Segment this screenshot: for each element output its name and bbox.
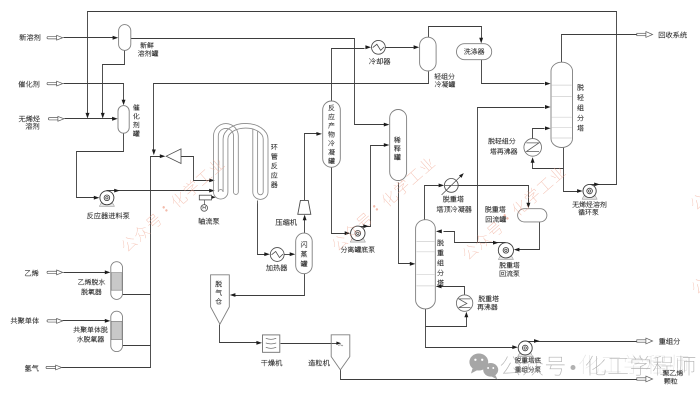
label heavies reboiler	[479, 295, 499, 301]
label olefin-free solvent	[19, 116, 40, 122]
label reactor feed pump	[87, 212, 129, 219]
wire fresh solvent tank to dilution tank	[131, 39, 386, 125]
wire heavies column overhead vapor to de-lighting column	[478, 108, 545, 243]
pump P3 separator bottom pump 分离罐底泵	[350, 239, 365, 243]
wire compressor to product condensate tank	[305, 134, 318, 201]
label ethylene	[25, 270, 38, 276]
machine M2 granulator 造粒机	[331, 335, 350, 370]
wire olefin-free solvent feed	[65, 118, 114, 120]
label dilution tank	[394, 137, 400, 161]
wire flash tank bottoms to degassing bin	[235, 274, 305, 296]
label solvent circulation pump	[573, 201, 607, 207]
arrow into cooler	[365, 45, 371, 49]
label flash tank	[301, 241, 307, 266]
arrow into loop reactor upper inlet	[209, 179, 215, 183]
label de-lighting column	[577, 84, 584, 131]
reboiler E3 de-lighting column reboiler 脱轻组分塔再沸器	[524, 139, 542, 157]
arrow into ejector	[160, 154, 166, 158]
arrow reboiler return into heavies column (over shape)	[436, 284, 442, 288]
arrow into ethylene dehydrator	[105, 270, 111, 274]
wire cooler to light component condensate drum	[386, 47, 414, 49]
arrow on separator pump discharge	[363, 224, 369, 228]
wire catalyst feed	[64, 84, 124, 102]
wire de-lighting reboiler return	[533, 129, 545, 139]
bin B1 degassing bin 脱气仓	[211, 275, 230, 324]
arrow into de-lighting column upper feed	[545, 82, 551, 86]
tank T6 light component condensate drum 轻组分冷凝罐	[420, 37, 437, 71]
wire flash tank overhead to compressor	[304, 220, 306, 234]
feed arrow olefin-free solvent 无烯烃溶剂	[48, 118, 58, 120]
arrow into dilution tank	[384, 123, 390, 127]
tank T4 reaction product condensate tank 反应产物冷凝罐	[323, 101, 341, 167]
ejector J1 reactor feed ejector	[166, 149, 181, 164]
wire catalyst tank to reactor feed pump	[77, 134, 124, 198]
label heater	[266, 265, 287, 271]
wire ethylene dehydrator outlet	[122, 294, 151, 296]
arrow into bottoms pump	[512, 345, 518, 349]
label polyethylene pellets	[663, 370, 683, 376]
arrow feed into heavies column	[410, 262, 416, 266]
arrow at reflux pump suction	[493, 241, 499, 245]
wire dryer to granulator	[281, 343, 337, 345]
label fresh solvent tank	[140, 42, 153, 48]
condenser E5 heavies column overhead condenser 脱重塔塔顶冷凝器	[444, 179, 458, 193]
label light condensate drum	[435, 73, 455, 79]
wire dryer outlet tip inside granulator	[332, 343, 337, 345]
arrow into heavies reboiler	[464, 312, 468, 318]
arrow into degassing bin	[230, 293, 236, 297]
product arrow to recovery system 回收系统	[637, 33, 647, 35]
arrow into product condensate tank	[316, 132, 322, 136]
arrow into loop reactor lower inlet	[209, 189, 215, 193]
label dryer	[261, 360, 282, 366]
wire loop reactor product to heater	[258, 204, 266, 255]
vessel V3 comonomer dehydrator-deoxygenator 共聚单体脱水脱氧器	[111, 311, 123, 351]
label hydrogen	[25, 365, 38, 371]
wire comonomer dehydrator outlet	[122, 345, 151, 347]
arrow into dilution tank lower inlet	[384, 143, 390, 147]
wire dilution tank bottoms to heavies column	[399, 183, 412, 264]
column C2 heavies removal column 脱重组分塔	[416, 220, 436, 309]
feed arrow comonomer 共聚单体	[47, 320, 57, 322]
pump P2 axial flow pump 轴流泵	[199, 195, 211, 200]
arrow into scrubber	[479, 38, 483, 44]
wire light drum overhead to scrubber	[429, 27, 482, 40]
watermark pink tile 2 公众号：化学工业	[329, 155, 436, 252]
reboiler E4 heavies column reboiler 脱重塔再沸器	[456, 295, 472, 311]
wire heavies column overhead to condenser	[425, 186, 439, 220]
label degassing bin	[215, 281, 221, 304]
arrow reflux into heavies column (over shape)	[436, 230, 442, 234]
pump P6 heavies bottoms pump 脱重塔塔底重组分泵	[518, 353, 533, 357]
arrow reboiler return into column	[545, 126, 551, 130]
wire loop reactor outlet stub	[257, 201, 259, 204]
label recovery system	[659, 32, 687, 38]
label ethylene dehydrator	[78, 279, 105, 285]
wire heater to flash tank	[285, 254, 292, 256]
label catalyst tank	[133, 104, 139, 136]
label overhead condenser	[443, 196, 464, 202]
pump P4 olefin-free solvent circulation pump 无烯烃溶剂循环泵	[582, 196, 597, 200]
arrow into dryer	[256, 341, 262, 345]
arrow into overhead condenser	[439, 184, 445, 188]
tank T3 flash tank 闪蒸罐	[296, 233, 313, 274]
arrow on pump discharge	[114, 189, 120, 193]
label separator bottom pump	[341, 246, 375, 252]
wire light-component condensate recycle to ejector	[154, 72, 429, 152]
label reflux pump	[499, 262, 519, 268]
wire new-solvent feed	[64, 37, 114, 39]
wire comonomer feed	[63, 320, 107, 322]
wire fresh solvent tank bottom to solvent feed line	[103, 51, 125, 115]
wire reflux pump to column reflux return	[444, 232, 506, 243]
pump P5 heavies column reflux pump 脱重塔回流泵	[498, 256, 513, 260]
arrow on circulation pump discharge	[594, 183, 600, 187]
label granulator	[309, 360, 330, 366]
wire reflux drum to reflux pump	[519, 222, 540, 250]
compressor K1 压缩机	[298, 200, 311, 214]
arrow into flash tank	[290, 252, 296, 256]
wire condenser outlet to reflux drum	[459, 186, 529, 205]
label scrubber	[464, 48, 484, 54]
tank T1 fresh solvent tank 新鲜溶剂罐	[119, 25, 131, 51]
feed arrow new solvent 新溶剂	[47, 37, 57, 39]
arrow reflux into heavies column	[436, 230, 442, 234]
wire granulator to polyethylene pellets outlet	[341, 369, 637, 380]
arrow into de-lighting column lower feed	[545, 105, 551, 109]
feed arrow catalyst 催化剂	[47, 82, 57, 84]
cooler E2 冷却器	[372, 40, 386, 54]
label heavies product	[659, 338, 680, 344]
wire condensate tank overhead to cooler	[332, 49, 365, 102]
tank T5 dilution tank 稀释罐	[390, 110, 407, 181]
product arrow heavies 重组分	[637, 340, 647, 342]
wire condensate tank bottoms to separator pump	[332, 168, 346, 234]
tank T7 heavies column reflux drum 脱重塔回流罐	[518, 209, 547, 222]
feed arrow hydrogen 氢气	[46, 366, 56, 368]
label de-lighting reboiler	[488, 138, 515, 144]
arrow reboiler return into heavies column	[436, 284, 442, 288]
arrow into light component drum	[414, 45, 420, 49]
arrow on bottoms pump discharge	[534, 339, 540, 343]
arrow into fresh solvent tank	[113, 36, 119, 40]
label reflux drum	[485, 206, 506, 212]
label product condensate tank	[328, 105, 334, 164]
junction arrow solvent tank drop	[101, 113, 105, 119]
vessel V1 scrubber 洗涤器	[457, 44, 492, 60]
wire solvent-recycle top bus (pump outlet to feed header)	[88, 12, 617, 185]
wire solvent circulation pump outlet	[590, 184, 617, 186]
watermark pink tile 4 公众号：化学工业 (edge sliver)	[688, 114, 700, 211]
wire thermosiphon to heavies reboiler	[426, 317, 467, 327]
wire de-lighting column bottoms	[564, 148, 579, 192]
tank T2 catalyst tank 催化剂罐	[118, 106, 129, 134]
wire de-lighting column overhead to recovery	[562, 35, 637, 63]
label loop reactor	[271, 144, 277, 187]
wire ejector outlet to loop reactor upper inlet	[181, 157, 211, 181]
wire bottoms pump to heavies outlet	[526, 341, 637, 343]
arrow into de-lighting reboiler	[531, 157, 535, 163]
arrow into heater	[264, 252, 270, 256]
label new solvent	[20, 34, 41, 40]
machine M1 dryer 干燥机	[263, 335, 280, 352]
wire scrubber bottoms to de-lighting column	[482, 60, 545, 84]
watermark wechat logo	[469, 354, 498, 380]
arrow into comonomer dehydrator	[105, 319, 111, 323]
watermark pink tile 3 公众号：化学工业	[460, 164, 567, 261]
arrow into separator bottom pump	[345, 231, 351, 235]
label comonomer dehydrator	[74, 326, 108, 332]
label bottoms pump	[515, 357, 541, 363]
watermark gray text 公众号·化工学程师	[501, 356, 696, 376]
label axial pump	[198, 218, 219, 224]
vessel V2 ethylene dehydrator-deoxygenator 乙烯脱水脱氧器	[111, 262, 123, 300]
arrow into catalyst tank side	[112, 117, 118, 121]
arrow into ejector junction	[152, 150, 156, 156]
arrow into catalyst tank top	[122, 100, 126, 106]
wire reactor feed pump outlet to loop reactor	[107, 190, 211, 192]
watermark pink tile 1 公众号：化学工业	[119, 156, 226, 253]
arrow into reflux drum	[526, 203, 530, 209]
wire degassing bin to dryer	[220, 325, 258, 343]
label compressor	[276, 219, 297, 225]
arrow into granulator	[336, 342, 341, 345]
arrow into compressor	[303, 215, 307, 221]
wire ethylene feed	[64, 272, 107, 274]
feed arrow ethylene 乙烯	[47, 271, 57, 273]
wire thermosiphon to de-lighting reboiler	[533, 163, 564, 169]
arrow into reflux pump	[514, 248, 520, 252]
heater E1 加热器	[270, 248, 284, 262]
wire separator pump to dilution tank	[358, 146, 386, 227]
label heavies column	[437, 240, 444, 286]
reactor R1 loop reactor 环管反应器	[214, 124, 239, 192]
watermark pink tile 5 公众号：化学工业 (edge sliver)	[689, 198, 700, 295]
label cooler	[369, 58, 390, 64]
label catalyst	[18, 81, 39, 87]
column C1 de-lighting column 脱轻组分塔	[551, 62, 573, 147]
pump P1 reactor feed pump 反应器进料泵	[99, 203, 114, 207]
label comonomer	[11, 317, 39, 324]
wire heavies column bottoms to bottoms pump	[426, 309, 513, 348]
arrow into reactor feed pump	[94, 196, 100, 200]
junction arrow into olefin-free solvent line	[86, 113, 90, 119]
arrow into solvent circulation pump	[577, 189, 583, 193]
wire heavies reboiler return	[442, 287, 465, 295]
product arrow polyethylene pellets 聚乙烯颗粒	[637, 378, 647, 380]
arrow into granulator (over shape)	[336, 342, 341, 345]
wire monomer/hydrogen collection header to ejector	[62, 157, 161, 368]
